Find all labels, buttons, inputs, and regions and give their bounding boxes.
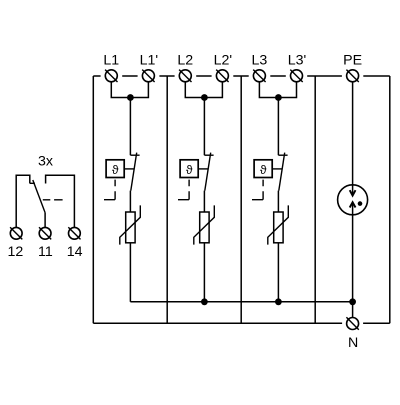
wire L2 branch middle [203, 191, 205, 212]
thermal sensor box (&#952;) branch L3 [254, 160, 272, 178]
wire bus to terminal N [352, 302, 354, 318]
wire L2 branch upper [203, 98, 205, 156]
spark gap F4 (gas discharge tube) [338, 185, 368, 215]
section divider 2 [240, 76, 242, 323]
enclosure top edge segments [93, 75, 390, 77]
wire PE drop to spark gap [352, 82, 354, 196]
svg-text:12: 12 [8, 244, 24, 260]
wire L2&#39; terminal drop [204, 82, 222, 98]
wire sensor link branch L3 [272, 168, 282, 170]
thermal sensor box (&#952;) branch L1 [106, 160, 124, 178]
svg-text:ϑ: ϑ [112, 163, 119, 177]
junction node L3 pair [275, 94, 282, 101]
thermal disconnector switch F3 fixed contact tick [278, 154, 287, 156]
wire contact terminal 14 to NO contact [46, 175, 75, 227]
svg-text:L3: L3 [252, 53, 268, 69]
dashed actuator link of contact [43, 199, 63, 201]
svg-text:PE: PE [343, 53, 362, 69]
svg-text:3x: 3x [38, 154, 53, 170]
svg-text:N: N [348, 335, 358, 351]
enclosure right edge wire [389, 76, 391, 323]
wire contact terminal 12 to NC contact [16, 175, 30, 227]
terminal 12 [10, 227, 22, 239]
enclosure bottom edge segments [93, 322, 390, 324]
junction node L2 pair [201, 94, 208, 101]
terminal 14 [68, 227, 80, 239]
thermal disconnector switch F3 lever [279, 153, 285, 191]
wire L3 branch middle [277, 191, 279, 212]
terminal 11 [39, 227, 51, 239]
wire L3 branch upper [277, 98, 279, 156]
svg-text:L1': L1' [140, 53, 159, 69]
wire L3 branch lower [277, 243, 279, 302]
junction node L1 pair [127, 94, 134, 101]
dashed mechanical link branch L2 [178, 180, 189, 200]
terminal L2 [179, 70, 191, 82]
junction node bus L2 [201, 298, 208, 305]
terminal N [346, 317, 358, 329]
svg-text:ϑ: ϑ [260, 163, 267, 177]
wire spark gap to bus [352, 202, 354, 302]
terminal L3' [290, 70, 302, 82]
varistor RV3 [268, 205, 289, 244]
wire L1 branch middle [129, 191, 131, 212]
svg-text:L1: L1 [103, 53, 119, 69]
thermal disconnector switch F2 lever [205, 153, 211, 191]
wire L2 terminal drop [185, 82, 204, 98]
changeover contact lever [33, 180, 45, 213]
junction node bus PE column [349, 298, 356, 305]
svg-text:14: 14 [67, 244, 83, 260]
wire L1&#39; terminal drop [130, 82, 148, 98]
terminal PE [346, 70, 358, 82]
svg-text:L2: L2 [177, 53, 193, 69]
section divider 3 [314, 76, 316, 323]
svg-text:ϑ: ϑ [186, 163, 193, 177]
wire L2 branch lower [203, 243, 205, 302]
wire L1 branch upper [129, 98, 131, 156]
varistor RV2 [194, 205, 215, 244]
wire L3 terminal drop [259, 82, 278, 98]
dashed mechanical link branch L3 [252, 180, 263, 200]
svg-text:L2': L2' [214, 53, 233, 69]
wire sensor link branch L1 [124, 168, 134, 170]
junction node bus L3 [275, 298, 282, 305]
wire sensor link branch L2 [198, 168, 208, 170]
varistor RV1 [120, 205, 141, 244]
terminal L2' [216, 70, 228, 82]
terminal L1 [105, 70, 117, 82]
enclosure left edge wire [92, 76, 94, 323]
section divider 1 [166, 76, 168, 323]
wire L1 branch lower [129, 243, 131, 302]
wire L1 terminal drop [111, 82, 130, 98]
terminal L1' [142, 70, 154, 82]
svg-text:11: 11 [38, 244, 53, 260]
thermal sensor box (&#952;) branch L2 [180, 160, 198, 178]
thermal disconnector switch F1 fixed contact tick [130, 154, 139, 156]
wire bottom bus [130, 301, 352, 303]
wire L3&#39; terminal drop [278, 82, 296, 98]
svg-text:L3': L3' [288, 53, 307, 69]
thermal disconnector switch F1 lever [131, 153, 137, 191]
thermal disconnector switch F2 fixed contact tick [204, 154, 213, 156]
dashed mechanical link branch L1 [104, 180, 115, 200]
contact 12 fixed contact tick [30, 182, 35, 184]
wire contact terminal 11 common [44, 213, 46, 228]
terminal L3 [253, 70, 265, 82]
